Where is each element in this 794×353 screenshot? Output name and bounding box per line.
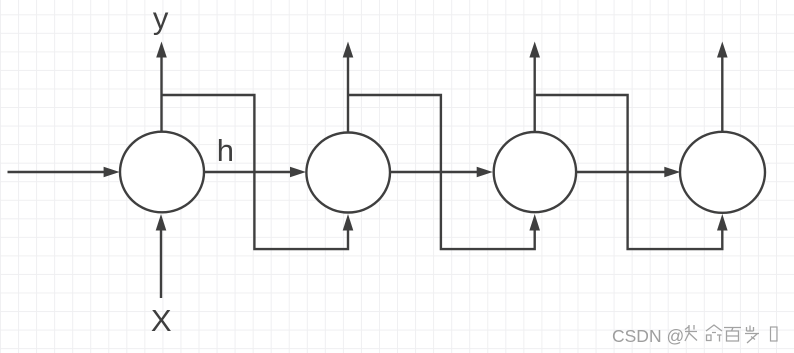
- svg-text:CSDN @: CSDN @: [612, 326, 684, 346]
- svg-text:X: X: [151, 303, 172, 338]
- svg-text:y: y: [153, 1, 169, 36]
- svg-text:h: h: [217, 133, 234, 168]
